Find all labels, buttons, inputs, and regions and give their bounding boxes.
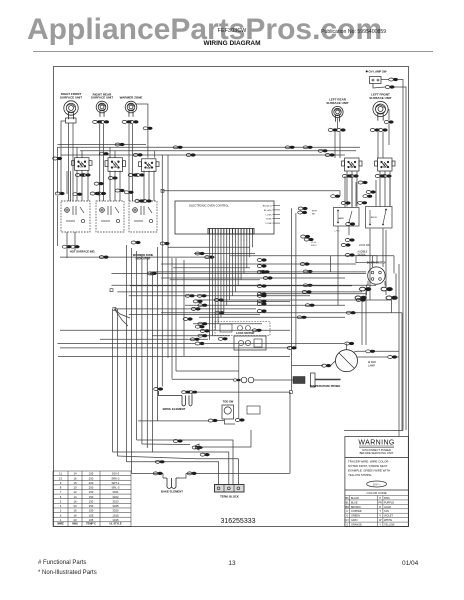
wire bbox=[114, 309, 130, 318]
connector bbox=[208, 419, 217, 422]
connector bbox=[345, 342, 354, 345]
wire bbox=[344, 176, 346, 208]
svg-text:13: 13 bbox=[59, 476, 63, 480]
svg-text:WARNING: WARNING bbox=[358, 440, 394, 447]
connector bbox=[322, 364, 331, 367]
wire bbox=[152, 335, 230, 337]
wire bbox=[344, 430, 403, 432]
wire bbox=[217, 234, 219, 324]
svg-text:BK-5(L1): BK-5(L1) bbox=[263, 206, 272, 208]
wire bbox=[109, 171, 111, 202]
wire bbox=[112, 272, 367, 274]
door switch S1 bbox=[368, 267, 385, 284]
wire bbox=[162, 473, 164, 478]
wire bbox=[397, 80, 403, 431]
wire bbox=[170, 279, 260, 281]
connector bbox=[70, 245, 79, 248]
wire bbox=[112, 309, 114, 452]
wire bbox=[129, 295, 310, 297]
wire bbox=[385, 230, 387, 287]
svg-text:PINK: PINK bbox=[384, 497, 390, 500]
connector bbox=[360, 287, 372, 291]
wire bbox=[366, 291, 368, 295]
wire bbox=[365, 291, 367, 345]
wire bbox=[119, 171, 121, 202]
wire bbox=[80, 150, 356, 152]
wire bbox=[103, 124, 105, 201]
wire bbox=[246, 234, 248, 268]
svg-text:150: 150 bbox=[89, 495, 94, 499]
oven lamp bbox=[336, 350, 358, 372]
wire bbox=[114, 171, 116, 202]
connector bbox=[115, 143, 124, 146]
svg-text:SGI-3: SGI-3 bbox=[112, 472, 120, 476]
connector bbox=[108, 176, 117, 179]
wire bbox=[66, 171, 68, 194]
connector bbox=[381, 287, 393, 291]
connector bbox=[135, 173, 144, 176]
connector bbox=[214, 298, 223, 301]
connector bbox=[189, 391, 197, 394]
svg-text:150: 150 bbox=[89, 490, 94, 494]
svg-text:BL-4(N): BL-4(N) bbox=[264, 210, 272, 212]
connector bbox=[218, 337, 227, 340]
wire bbox=[114, 309, 128, 326]
svg-text:L2 BR: L2 BR bbox=[265, 223, 271, 225]
connector bbox=[287, 346, 296, 349]
wire gauge table bbox=[53, 471, 131, 527]
wire bbox=[273, 218, 281, 220]
connector bbox=[90, 192, 99, 195]
wire bbox=[60, 347, 290, 349]
wire bbox=[372, 256, 374, 267]
wire bbox=[151, 273, 153, 452]
connector bbox=[341, 201, 350, 204]
wire bbox=[238, 345, 240, 418]
connector bbox=[325, 153, 334, 156]
wire bbox=[138, 420, 158, 422]
wire bbox=[146, 257, 148, 448]
wire bbox=[154, 151, 156, 158]
wire bbox=[60, 329, 290, 331]
wire bbox=[331, 361, 336, 366]
svg-text:GREEN: GREEN bbox=[351, 515, 360, 518]
connector bbox=[200, 453, 209, 456]
wire bbox=[337, 118, 339, 128]
connector bbox=[366, 190, 375, 193]
svg-text:W: W bbox=[379, 519, 382, 522]
connector bbox=[305, 304, 314, 307]
wire bbox=[384, 171, 386, 207]
svg-text:PURPLE: PURPLE bbox=[384, 501, 394, 504]
svg-text:10: 10 bbox=[73, 486, 77, 490]
wire bbox=[388, 109, 390, 120]
wire bbox=[114, 308, 256, 310]
svg-text:BLUE: BLUE bbox=[351, 501, 358, 504]
connector bbox=[173, 439, 182, 442]
wire bbox=[161, 277, 345, 279]
wire bbox=[60, 256, 215, 258]
wire bbox=[273, 209, 281, 211]
connector bbox=[358, 201, 367, 204]
connector bbox=[297, 316, 306, 319]
wire bbox=[58, 144, 147, 146]
svg-text:1015: 1015 bbox=[112, 518, 119, 522]
wire bbox=[74, 232, 76, 250]
svg-text:SW: SW bbox=[383, 166, 388, 169]
wire bbox=[180, 473, 186, 478]
connector bbox=[328, 128, 337, 131]
connector bbox=[53, 157, 62, 160]
wire bbox=[385, 291, 387, 295]
wire bbox=[273, 213, 281, 215]
connector bbox=[135, 199, 144, 202]
svg-text:105: 105 bbox=[89, 513, 94, 517]
wire bbox=[131, 248, 133, 473]
svg-text:COPPER: COPPER bbox=[351, 510, 362, 513]
wire bbox=[398, 264, 400, 431]
svg-text:C: C bbox=[346, 510, 348, 513]
wire bbox=[339, 191, 341, 196]
wire bbox=[81, 151, 83, 158]
connector bbox=[260, 270, 269, 273]
wire bbox=[358, 356, 389, 358]
wire bbox=[76, 147, 78, 157]
svg-text:BR: BR bbox=[345, 506, 349, 509]
connector bbox=[257, 302, 266, 305]
wire bbox=[252, 234, 254, 247]
svg-text:LOCK SW: LOCK SW bbox=[359, 245, 370, 247]
svg-text:TAN: TAN bbox=[384, 510, 389, 513]
svg-text:150: 150 bbox=[89, 499, 94, 503]
wire bbox=[295, 213, 297, 348]
connector bbox=[298, 207, 307, 210]
wire bbox=[81, 171, 83, 202]
svg-text:VIOLET: VIOLET bbox=[384, 515, 393, 518]
connector bbox=[318, 149, 327, 152]
connector bbox=[389, 78, 398, 81]
connector bbox=[386, 296, 398, 300]
wire bbox=[116, 309, 118, 456]
svg-text:V: V bbox=[379, 515, 381, 518]
wire bbox=[70, 171, 72, 201]
svg-text:14: 14 bbox=[73, 472, 77, 476]
wire bbox=[57, 147, 59, 194]
infinite switch warmer bbox=[139, 159, 160, 172]
connector bbox=[257, 264, 266, 267]
wire bbox=[375, 180, 377, 207]
connector bbox=[366, 350, 375, 353]
wire bbox=[126, 462, 218, 484]
wire bbox=[389, 176, 391, 207]
wire bbox=[66, 232, 68, 258]
electronic oven control board U1 bbox=[175, 201, 274, 234]
connector bbox=[198, 322, 207, 325]
wire bbox=[381, 79, 389, 81]
junction bbox=[289, 391, 292, 394]
wire bbox=[132, 472, 164, 474]
svg-text:L1 BK: L1 BK bbox=[266, 214, 272, 216]
wire bbox=[355, 182, 357, 207]
svg-text:9: 9 bbox=[60, 481, 62, 485]
svg-text:TEMPERATURE PROBE: TEMPERATURE PROBE bbox=[310, 384, 341, 388]
bake element bbox=[163, 478, 180, 489]
svg-text:16: 16 bbox=[73, 476, 77, 480]
wire bbox=[173, 267, 250, 269]
connector bbox=[198, 304, 207, 307]
indicator box warmer ind bbox=[129, 201, 157, 232]
watermark bbox=[27, 13, 383, 47]
wire bbox=[225, 419, 236, 424]
connector bbox=[99, 152, 108, 155]
wire bbox=[191, 392, 193, 395]
connector bbox=[128, 173, 137, 176]
svg-text:4: 4 bbox=[60, 504, 62, 508]
connector bbox=[133, 153, 142, 156]
connector bbox=[192, 446, 201, 449]
wire bbox=[249, 234, 251, 257]
connector bbox=[143, 127, 152, 130]
wire bbox=[367, 281, 369, 287]
connector bbox=[375, 174, 384, 177]
wire bbox=[61, 121, 66, 194]
connector bbox=[304, 238, 313, 241]
wire bbox=[130, 285, 352, 287]
lock motor bbox=[215, 322, 270, 336]
svg-text:BK: BK bbox=[346, 497, 350, 500]
wire bbox=[175, 258, 177, 371]
connector bbox=[345, 253, 354, 256]
svg-text:150: 150 bbox=[89, 504, 94, 508]
connector bbox=[257, 258, 266, 261]
wire bbox=[131, 124, 133, 201]
svg-text:PR: PR bbox=[378, 501, 382, 504]
connector bbox=[370, 128, 379, 131]
svg-text:✱ OV LAMP SW: ✱ OV LAMP SW bbox=[365, 70, 386, 74]
wire bbox=[260, 293, 366, 295]
broil element bbox=[159, 391, 193, 406]
wire bbox=[234, 234, 236, 292]
wire bbox=[196, 299, 392, 301]
svg-text:BROIL: BROIL bbox=[371, 217, 378, 219]
wire bbox=[117, 291, 362, 293]
svg-text:BROIL ELEMENT: BROIL ELEMENT bbox=[163, 407, 186, 411]
svg-text:6: 6 bbox=[60, 495, 62, 499]
svg-text:3323: 3323 bbox=[112, 499, 119, 503]
svg-text:EXAMPLE: GREEN WIRE WITH: EXAMPLE: GREEN WIRE WITH bbox=[348, 469, 390, 473]
svg-text:G: G bbox=[346, 515, 348, 518]
connector bbox=[124, 191, 133, 194]
wire bbox=[330, 256, 332, 272]
connector bbox=[303, 284, 312, 287]
svg-text:16: 16 bbox=[73, 499, 77, 503]
svg-text:1: 1 bbox=[60, 518, 62, 522]
connector bbox=[147, 272, 156, 275]
connector bbox=[331, 195, 340, 198]
connector bbox=[384, 120, 393, 123]
wire bbox=[161, 312, 402, 314]
svg-text:316255333: 316255333 bbox=[220, 518, 255, 525]
wire bbox=[395, 273, 397, 298]
wire bbox=[243, 234, 245, 273]
wire bbox=[141, 254, 143, 444]
svg-text:GY: GY bbox=[345, 519, 349, 522]
junction bbox=[110, 289, 113, 292]
connector bbox=[160, 242, 169, 245]
connector bbox=[257, 294, 266, 297]
wire bbox=[195, 430, 251, 447]
wire bbox=[112, 284, 377, 286]
wire bbox=[158, 420, 210, 422]
infinite switch right rear bbox=[105, 158, 126, 172]
svg-text:LAMP: LAMP bbox=[368, 364, 375, 368]
wire bbox=[230, 255, 394, 257]
svg-text:20: 20 bbox=[73, 518, 77, 522]
svg-text:TEMP°C: TEMP°C bbox=[86, 522, 96, 525]
door lock switch bbox=[247, 406, 260, 414]
svg-text:5: 5 bbox=[60, 499, 62, 503]
connector bbox=[62, 245, 71, 248]
svg-text:AWG: AWG bbox=[72, 522, 78, 525]
wire bbox=[58, 146, 361, 148]
wire bbox=[113, 452, 229, 484]
wire bbox=[205, 343, 344, 345]
connector bbox=[173, 146, 182, 149]
oven temperature sensor probe bbox=[241, 377, 247, 383]
svg-text:200: 200 bbox=[89, 481, 94, 485]
wire bbox=[171, 258, 173, 379]
connector bbox=[75, 173, 84, 176]
wire bbox=[99, 124, 101, 201]
wire bbox=[231, 234, 233, 296]
svg-text:23: 23 bbox=[73, 504, 77, 508]
connector bbox=[193, 300, 202, 303]
wire bbox=[61, 154, 345, 156]
svg-text:3320: 3320 bbox=[112, 509, 119, 513]
wire bbox=[199, 316, 345, 318]
svg-text:2: 2 bbox=[60, 509, 62, 513]
connector bbox=[186, 153, 195, 156]
wire bbox=[100, 338, 208, 340]
wire bbox=[220, 234, 222, 317]
connector bbox=[303, 146, 312, 149]
wire bbox=[109, 147, 111, 157]
connector bbox=[93, 120, 102, 123]
connector bbox=[257, 284, 266, 287]
connector bbox=[55, 192, 64, 195]
wire bbox=[214, 234, 216, 330]
surface unit left front bbox=[373, 101, 388, 120]
connector bbox=[345, 238, 354, 241]
svg-text:200: 200 bbox=[89, 486, 94, 490]
wire bbox=[129, 314, 260, 316]
wire bbox=[339, 132, 341, 158]
connector bbox=[298, 211, 307, 214]
connector bbox=[385, 85, 394, 88]
svg-text:TOD SW: TOD SW bbox=[223, 400, 234, 404]
svg-text:12: 12 bbox=[73, 490, 77, 494]
svg-text:COLOR CODE: COLOR CODE bbox=[367, 491, 387, 495]
indicator box hot surface ind 1 bbox=[61, 201, 90, 232]
power terminal block bbox=[215, 485, 245, 493]
warning box bbox=[345, 436, 408, 526]
wire bbox=[128, 124, 130, 201]
wire bbox=[254, 379, 293, 381]
svg-text:BEFORE SERVICING UNIT.: BEFORE SERVICING UNIT. bbox=[360, 451, 394, 455]
wire bbox=[163, 190, 341, 192]
svg-text:BAKE ELEMENT: BAKE ELEMENT bbox=[161, 490, 183, 494]
svg-text:SURFACE UNIT: SURFACE UNIT bbox=[60, 95, 82, 99]
connector bbox=[190, 338, 199, 341]
svg-text:DISCONNECT POWER: DISCONNECT POWER bbox=[362, 448, 391, 452]
connector bbox=[129, 120, 138, 123]
thermal oven device switch bbox=[222, 405, 234, 419]
svg-text:WARMER ZONE: WARMER ZONE bbox=[120, 96, 143, 100]
wire bbox=[211, 234, 213, 336]
connector bbox=[358, 181, 367, 184]
wire bbox=[354, 350, 366, 353]
connector bbox=[195, 252, 204, 255]
svg-text:L/TO: L/TO bbox=[335, 231, 340, 233]
wire bbox=[273, 205, 281, 207]
wire bbox=[220, 300, 290, 302]
svg-text:SIGNAL: SIGNAL bbox=[358, 254, 367, 257]
connector bbox=[233, 379, 241, 382]
connector bbox=[342, 174, 351, 177]
wire bbox=[168, 246, 250, 248]
junction bbox=[151, 272, 154, 275]
svg-text:11: 11 bbox=[59, 472, 62, 476]
svg-text:1015: 1015 bbox=[112, 513, 119, 517]
wire bbox=[292, 366, 323, 391]
wire bbox=[161, 155, 163, 387]
connector bbox=[182, 391, 190, 394]
connector bbox=[356, 298, 365, 301]
wire bbox=[240, 234, 242, 280]
svg-text:ELECTRONIC OVEN CONTROL: ELECTRONIC OVEN CONTROL bbox=[189, 204, 229, 208]
connector bbox=[341, 243, 350, 246]
wire bbox=[291, 208, 293, 365]
connector bbox=[252, 329, 261, 332]
connector bbox=[257, 292, 266, 295]
wire bbox=[337, 226, 339, 305]
svg-text:BAKE: BAKE bbox=[338, 217, 344, 220]
connector bbox=[185, 294, 194, 297]
wire bbox=[125, 245, 127, 462]
wire bbox=[237, 234, 239, 286]
svg-text:16: 16 bbox=[73, 509, 77, 513]
connector bbox=[81, 173, 90, 176]
wire bbox=[226, 234, 228, 305]
connector bbox=[73, 193, 82, 196]
wire bbox=[379, 171, 381, 207]
infinite switch left rear bbox=[342, 158, 363, 171]
connector bbox=[205, 256, 214, 259]
wire bbox=[137, 440, 233, 484]
svg-text:WIRE: WIRE bbox=[57, 522, 64, 525]
wire bbox=[393, 256, 395, 274]
connector bbox=[301, 235, 310, 238]
wire bbox=[58, 343, 196, 345]
lock motor inner assembly bbox=[234, 336, 266, 350]
svg-text:3325: 3325 bbox=[112, 504, 119, 508]
infinite switch right front bbox=[72, 158, 93, 171]
svg-text:7: 7 bbox=[60, 490, 62, 494]
connector bbox=[257, 270, 266, 273]
connector bbox=[195, 446, 203, 449]
svg-text:LOCK MOTOR: LOCK MOTOR bbox=[236, 331, 254, 335]
wire bbox=[176, 370, 239, 372]
